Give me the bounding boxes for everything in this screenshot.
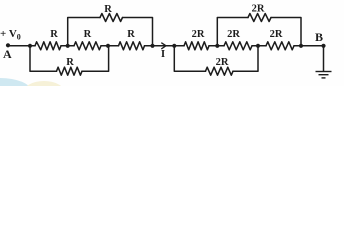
svg-text:2R: 2R [192, 29, 205, 40]
node dot bottom-right branch left [172, 44, 176, 48]
resistor R bottom branch [57, 67, 83, 75]
wire R2 to R3 [101, 45, 119, 47]
resistor R top branch [100, 14, 123, 22]
node A dot [6, 43, 10, 47]
node dot top-left branch left [66, 44, 70, 48]
wire [209, 45, 224, 47]
wire top-right branch left side [217, 18, 248, 46]
svg-text:2R: 2R [227, 29, 240, 40]
resistor 2R second [224, 42, 252, 50]
junction dot bottom-left branch right [106, 44, 110, 48]
svg-text:2R: 2R [270, 29, 283, 40]
node B dot [321, 44, 325, 48]
node dot top-right branch left [215, 44, 219, 48]
resistor 2R bottom branch [206, 67, 234, 75]
svg-text:2R: 2R [252, 4, 265, 15]
svg-text:A: A [3, 47, 12, 61]
wire A to bottom-left junction [8, 45, 35, 47]
resistor 2R first [184, 42, 209, 50]
svg-text:2R: 2R [216, 57, 229, 68]
wire top-right branch right side [271, 18, 301, 46]
resistor 2R third [266, 42, 294, 50]
wire bottom-left branch right side [82, 46, 109, 71]
wire [252, 45, 266, 47]
svg-text:R: R [50, 29, 58, 40]
resistor R1 [35, 42, 61, 50]
wire top-left branch left side [68, 18, 100, 46]
svg-text:R: R [84, 29, 92, 40]
wire R1 to R2 [61, 45, 74, 47]
current arrow I [155, 43, 167, 60]
wire top-left branch right side [123, 18, 153, 46]
wire bottom-right branch left side [174, 46, 205, 71]
svg-text:I: I [161, 48, 165, 60]
node dot top-left branch right [150, 44, 154, 48]
wire bottom-left branch left side [30, 46, 57, 71]
wire to node B [294, 45, 324, 47]
resistor R2 [74, 42, 101, 50]
node dot top-right branch right [299, 44, 303, 48]
svg-text:R: R [66, 57, 74, 68]
ground symbol [316, 72, 332, 78]
svg-text:R: R [104, 4, 112, 15]
svg-text:B: B [315, 30, 323, 44]
wire bottom-right branch right side [233, 46, 258, 71]
wire R3 to 2R section [145, 45, 185, 47]
svg-text:R: R [127, 29, 135, 40]
junction dot bottom-right branch right [256, 44, 260, 48]
wire B down to ground [323, 46, 325, 71]
resistor R3 [119, 42, 145, 50]
junction dot bottom-left branch left [28, 44, 32, 48]
svg-text:+ V0: + V0 [0, 28, 21, 42]
resistor 2R top branch [248, 14, 271, 22]
